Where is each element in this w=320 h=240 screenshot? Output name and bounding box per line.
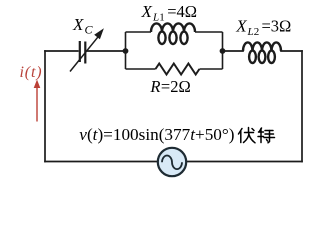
wire: top branch right (195, 31, 223, 33)
inductor L2 (243, 42, 281, 63)
resistor R (156, 64, 200, 75)
svg-text:=2Ω: =2Ω (161, 77, 191, 96)
node B (junction dot right) (220, 48, 226, 54)
svg-text:L: L (247, 26, 254, 38)
wire: node B to inductor L2 (223, 50, 244, 52)
arrow through XC (70, 28, 104, 71)
wire: inductor L2 to top-right corner (281, 50, 302, 52)
hanzi TE (volt-2) (258, 128, 275, 143)
svg-text:v(t)=100sin(377t+50°): v(t)=100sin(377t+50°) (79, 125, 234, 144)
svg-text:i(t): i(t) (20, 64, 43, 81)
svg-text:=4Ω: =4Ω (167, 2, 197, 21)
wire: top branch left (126, 31, 152, 33)
label R=2ohm (149, 77, 190, 96)
svg-text:C: C (85, 23, 94, 37)
svg-text:X: X (235, 17, 247, 36)
wire: bottom branch left (126, 68, 156, 70)
svg-text:2: 2 (254, 26, 259, 38)
svg-text:1: 1 (159, 12, 165, 24)
wire: bottom branch right (200, 68, 223, 70)
wire: left vertical (44, 51, 46, 162)
AC source V1 (158, 148, 186, 176)
wire: top-left to capacitor (45, 50, 78, 52)
label XL1=4ohm (141, 2, 198, 24)
node A (junction dot left) (123, 48, 129, 54)
wire: bottom horizontal (45, 161, 302, 163)
wire: right vertical (301, 51, 303, 162)
svg-text:X: X (72, 15, 84, 34)
wire: parallel box left vertical (125, 32, 127, 69)
wire: parallel box right vertical (222, 32, 224, 69)
wire: capacitor to node A (87, 50, 126, 52)
inductor L1 (151, 23, 195, 44)
svg-text:=3Ω: =3Ω (262, 17, 292, 36)
svg-text:L: L (152, 12, 159, 24)
current arrow (red) (34, 80, 41, 122)
label XL2=3ohm (235, 17, 291, 39)
svg-text:X: X (141, 2, 153, 21)
capacitor XC (variable) (80, 41, 86, 64)
svg-text:R: R (149, 77, 160, 96)
hanzi FU (volt) (239, 128, 256, 143)
